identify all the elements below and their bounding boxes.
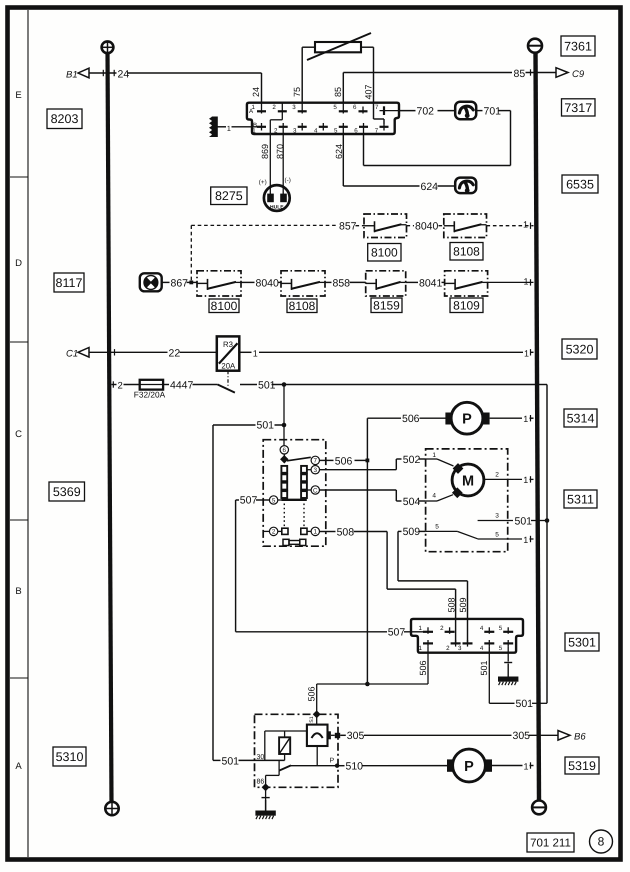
ground bus (right) [536,51,540,801]
timer diode to contact lead [316,746,318,766]
pin A2 [272,103,286,114]
svg-text:4: 4 [314,128,318,135]
component label 8159 [371,298,402,313]
pin A3 [292,103,306,114]
connector 5301 pin A5 [499,625,513,634]
dashed wire 857 branch corner [191,225,337,281]
component label 5369 [49,482,85,501]
relay pin 3 [311,466,319,474]
svg-text:7: 7 [375,104,379,111]
wire 506 : relay pin 7 to pump P and down [320,418,446,684]
svg-text:3: 3 [495,513,499,520]
relay stub col right to pin C [307,489,311,491]
svg-text:22: 22 [169,347,181,359]
timer ground terminal diamond [262,783,270,791]
bus tick at wire 2 [112,381,114,387]
svg-text:1: 1 [524,761,529,771]
svg-text:F32/20A: F32/20A [134,389,166,399]
svg-text:509: 509 [403,526,421,538]
svg-text:1: 1 [227,124,231,133]
relay terminal square right [301,528,307,534]
svg-text:6: 6 [353,104,357,111]
motor pin 4 lead [426,493,453,502]
svg-text:8041: 8041 [419,277,443,289]
motor terminal diamond upper [453,463,464,474]
svg-text:5319: 5319 [568,759,596,773]
connector 5301 pin B2 [446,640,460,652]
strip divider E/D [10,176,28,178]
bus tick R3 row [530,349,532,355]
svg-text:2: 2 [272,104,276,111]
relay pin 1 (508 out) [311,527,319,535]
svg-text:8: 8 [598,835,605,849]
wire 501 : connector 5301 pin B4 to parallel line [489,647,547,704]
pin B5 [334,123,348,135]
wire 508 : relay pin 1 to connector 5301 pin B2 [320,532,456,644]
svg-text:3: 3 [292,104,296,111]
svg-text:R3: R3 [223,340,233,349]
svg-text:6535: 6535 [566,177,594,191]
wire 504 : relay pin C to motor pin 4 [320,490,426,501]
relay terminal square left [282,528,288,534]
junction node 501 parallel [545,518,550,523]
relay dotted link right [303,504,305,527]
blower control relay 5369 box [263,440,326,547]
wire 502 : relay pin 3 to motor pin 1 [320,459,426,470]
connector block outline (heater control) [247,103,399,134]
chassis ground timer [255,800,275,819]
svg-text:C1: C1 [66,349,78,360]
svg-text:B: B [15,586,21,597]
svg-text:5: 5 [272,497,276,504]
svg-text:S1: S1 [309,716,315,722]
motor M symbol [452,464,484,496]
svg-text:7: 7 [375,128,379,135]
chassis ground lug left of connector [209,117,218,138]
svg-text:3: 3 [293,128,297,135]
wire 858 row2 [325,281,366,283]
ignition switch contact [218,385,235,393]
battery 8275 symbol [264,185,290,211]
svg-text:85: 85 [333,87,343,97]
wire 501 parallel drop right of bus [536,385,547,704]
svg-text:P: P [330,757,335,764]
svg-text:504: 504 [403,496,421,508]
motor pin 2 lead to ground bus [484,472,534,480]
wire 509 label and lead [398,530,426,532]
svg-text:4: 4 [480,625,484,632]
junction node P/510 [335,764,339,768]
svg-text:86: 86 [257,779,265,786]
wire 8041 row2 [406,281,445,283]
bus tick motor pin5 [530,536,532,542]
pump P symbol (5319) [447,749,492,782]
motor switch contact 5 [426,524,534,539]
pin A1 [252,103,266,114]
svg-text:506: 506 [402,413,420,425]
timer top terminal diamond [313,710,321,718]
component label 6535 [562,175,598,193]
wire 624 : pin B5 to clock icon 2 [343,134,455,186]
wire 870 : connector to battery minus [282,134,284,194]
svg-text:624: 624 [421,181,439,193]
svg-text:B1: B1 [66,70,78,81]
wire label 501 (branch) [256,419,275,432]
svg-text:5: 5 [334,128,338,135]
wire 507 : relay pin 5 to connector 5301 [236,500,423,632]
bus tick at 22 wire [114,349,116,355]
svg-text:8109: 8109 [453,298,480,312]
margin strip line [27,10,29,857]
wire 1 : R3 to ground bus [239,351,533,353]
svg-text:407: 407 [363,84,373,99]
svg-text:P: P [464,759,474,775]
svg-text:305: 305 [513,730,531,742]
svg-text:(+): (+) [259,179,267,186]
svg-text:C: C [15,429,22,440]
svg-text:HULE: HULE [270,204,284,210]
connector 5301 pin B1 [419,640,433,652]
svg-text:5301: 5301 [568,635,596,649]
svg-text:508: 508 [446,597,456,612]
timer internal lead top [316,714,318,724]
svg-text:B6: B6 [574,731,586,742]
blower motor unit 5311 box [426,449,508,552]
timer relay 5310 box [255,714,339,787]
bus tick pump row [530,415,532,421]
svg-text:M: M [462,474,474,490]
relay pin 5 (507 out) [269,496,277,504]
svg-text:24: 24 [251,87,261,97]
svg-text:5320: 5320 [566,342,594,356]
svg-text:858: 858 [333,277,351,289]
door switch 8100 (row1) [364,214,407,238]
relay pin 7 [311,456,319,464]
sheet number box 701 211 [527,833,574,852]
clock symbol 624 [455,178,476,194]
svg-text:3: 3 [458,645,462,652]
wire 509 : to connector 5301 pin B3 [398,531,468,643]
svg-text:8203: 8203 [51,112,79,126]
svg-text:1: 1 [252,104,256,111]
svg-text:501: 501 [222,755,240,767]
pin B3 [293,123,307,135]
wire 701 : icon to connector pin B6 (loop) [364,111,511,166]
wire 501 branch to relay coil pin 6 [283,385,285,446]
door switch 8108 (row1) [444,214,487,238]
junction node 501 [282,382,287,387]
svg-text:501: 501 [515,515,533,527]
strip divider D/C [10,341,28,343]
relay bottom resistor [283,539,306,545]
svg-text:2: 2 [274,128,278,135]
component label 8108 (row1) [450,243,483,261]
svg-text:6: 6 [354,128,358,135]
component label 8100 (row2) [209,299,239,313]
relay pin 2 stub [263,530,269,532]
timer terminal square 305 [330,731,341,739]
component label 5314 [564,409,597,427]
svg-text:4: 4 [432,493,436,500]
door switch 8108 (row2) [281,271,325,296]
svg-text:C: C [313,487,318,494]
wire 867 : lamp icon to switch chain [162,281,197,283]
svg-text:5: 5 [499,645,503,652]
svg-text:2: 2 [272,529,276,536]
pin B7 [375,123,389,135]
svg-text:1: 1 [432,452,436,459]
svg-text:E: E [15,90,21,101]
relay stub bar to pin 5 [278,499,282,501]
component label 8203 [47,109,82,129]
svg-text:3: 3 [314,467,318,474]
relay stub pin2-square [278,530,282,532]
relay resistor column right [301,466,307,498]
wire 506 : connector 5301 pin B1 down to junction [317,647,428,684]
timer coil [279,737,290,754]
svg-text:701 211: 701 211 [530,838,571,850]
relay pin 2 [269,527,277,535]
bus tick motor pin2 [530,476,532,482]
svg-text:1: 1 [523,535,528,545]
rheostat R (variable resistor) [307,33,371,60]
component label 7317 [562,99,596,116]
connector 5301 outline [411,619,523,653]
chassis ground 5301 [498,664,518,686]
wire 305 : timer to arrow B6 [340,734,558,736]
svg-text:510: 510 [346,761,364,773]
connector 5301 pin B4 [480,640,494,652]
relay column bottom bar [282,499,307,501]
timer pivot to ground lead [266,771,280,788]
timer electronic box (diode) [307,725,328,746]
svg-text:1: 1 [253,348,258,358]
svg-text:1: 1 [524,348,529,358]
connector 5301 pin B5 [499,640,513,652]
svg-text:8108: 8108 [289,299,316,313]
wire 22 : C1 to breaker R3 [89,351,217,353]
relay pin C [311,486,319,494]
svg-text:502: 502 [403,454,421,466]
door switch 8159 [366,271,406,296]
terminal circle-minus top right [528,39,542,53]
door switch 8109 [445,271,488,296]
component label 8108 (row2) [287,299,317,313]
svg-text:8100: 8100 [211,299,238,313]
svg-text:5: 5 [495,531,499,538]
svg-text:1: 1 [419,645,423,652]
wire 869 : connector to battery plus [269,134,271,194]
door switch 8100 (row2) [197,271,241,296]
wire 85 : connector pin A5 to arrow C9 [343,73,556,104]
junction node 501 at 425 [282,423,287,428]
svg-text:5: 5 [435,524,439,531]
svg-text:2: 2 [440,625,444,632]
svg-text:7361: 7361 [564,39,592,53]
svg-text:507: 507 [388,627,406,639]
svg-text:5369: 5369 [53,485,81,499]
motor pin 3 lead (501) [478,513,547,521]
svg-text:701: 701 [484,105,502,117]
junction node 506 [366,459,370,463]
pin B2 [274,123,288,135]
svg-text:C9: C9 [572,69,585,80]
svg-text:20A: 20A [221,361,236,370]
thermal breaker R3 20A [217,336,240,370]
svg-text:5310: 5310 [56,750,84,764]
component label 5320 [562,339,597,359]
svg-text:6: 6 [283,447,287,454]
svg-text:1: 1 [524,276,529,286]
svg-text:501: 501 [257,420,275,432]
motor terminal diamond lower [452,487,463,498]
relay pin 6 (top) [280,446,288,454]
svg-text:8040: 8040 [415,220,439,232]
svg-text:4447: 4447 [170,379,194,391]
wire 4447 : fuse to ignition switch [163,384,218,386]
relay stub square-pin1 [307,530,311,532]
terminal circle-plus top left [102,41,114,53]
sheet index circle 8 [590,830,613,853]
clock symbol 701/702 [455,102,476,120]
component label 8109 [450,298,483,313]
wire 702 : pin A7 to clock icon [399,110,455,112]
svg-text:2: 2 [446,645,450,652]
timer ground stub and tick [262,787,270,810]
motor pin 1 lead [426,452,454,466]
svg-text:506: 506 [418,660,428,675]
wire 407 : rheostat to connector pin B7 (internal) [361,47,384,123]
junction node 506 bottom [365,682,370,687]
svg-text:1: 1 [252,128,256,135]
terminal circle-minus bottom right [532,801,546,815]
wire 2 : supply bus to fuse F32 [112,384,140,386]
svg-text:501: 501 [258,379,276,391]
pin B1 [252,123,266,135]
positive supply bus (left) [108,51,112,803]
wire 8040 row2 [241,281,281,283]
svg-text:5311: 5311 [567,492,594,506]
arrow B1 (off-page left) [66,68,89,80]
bus tick row2 [530,279,532,285]
connector 5301 pin A2 [440,625,454,634]
svg-text:870: 870 [275,144,285,159]
svg-text:24: 24 [118,68,130,80]
bus tick at 85 wire [530,69,532,75]
svg-text:867: 867 [171,277,189,289]
svg-text:8159: 8159 [373,298,400,312]
svg-text:1: 1 [419,625,423,632]
component label 5311 [564,490,597,508]
svg-text:8108: 8108 [453,244,480,258]
internal link pin A2 to wire 869 [270,114,282,135]
svg-text:509: 509 [458,597,468,612]
relay stub col right to pin 3 [307,469,311,471]
svg-text:8100: 8100 [371,245,398,259]
timer switch arm [279,760,337,770]
junction node 857/867 [189,281,193,285]
svg-text:2: 2 [118,380,123,391]
component label 5310 [53,747,86,766]
terminal circle-plus bottom left [105,802,118,815]
svg-text:1: 1 [314,529,318,536]
pin A5 [333,103,347,114]
arrow C1 (off-page left) [66,348,89,360]
arrow C9 (off-page right) [556,68,585,80]
connector 5301 pin B3 [458,640,472,652]
svg-text:5: 5 [333,104,337,111]
dashed wire row1 to ground bus [487,225,534,227]
wire 1 : pump 5319 to ground bus [492,765,534,767]
component label 8100 (row1) [368,244,401,262]
svg-text:30: 30 [257,754,265,761]
mechanical link R3 to switch (dash-dot) [227,371,229,387]
svg-text:7: 7 [314,458,318,465]
svg-text:2: 2 [495,472,499,479]
wire 501 : to timer pin 30 [213,759,285,761]
svg-text:1: 1 [523,219,528,229]
connector 5301 pin A4 [480,625,494,634]
wire 510 : timer P contact to pump [337,765,447,767]
svg-text:506: 506 [306,686,316,701]
wire 501 branch to bottom relay [213,425,284,760]
component label 5319 [565,757,599,774]
svg-text:305: 305 [347,730,365,742]
fuse F32/20A [140,380,163,390]
connector 5301 pin B5 ground stub [504,647,512,663]
svg-text:1: 1 [523,475,528,485]
svg-text:501: 501 [479,660,489,675]
wire 1 : pump P to ground bus [490,417,534,419]
svg-text:857: 857 [339,221,357,233]
pin A6 [353,104,367,114]
svg-text:A: A [15,761,22,772]
timer wiring loop [265,731,307,760]
svg-text:8117: 8117 [56,276,83,290]
wire 506 : junction down to timer relay [316,684,318,714]
svg-text:8275: 8275 [215,189,243,203]
bus tick marks at 24 wire crossing [103,70,114,76]
pump P symbol (5314) [445,402,489,434]
svg-text:(-): (-) [285,177,291,184]
svg-text:P: P [462,412,472,428]
relay switch arm to pin 7 [287,457,311,461]
relay dotted link left [283,504,285,527]
svg-text:85: 85 [514,68,526,80]
connector 5301 pin A1 [419,625,433,634]
pin B4 [314,123,328,135]
bus tick pump 5319 [530,762,532,768]
svg-text:501: 501 [516,698,534,710]
pin A7 (wire 702 exit) [375,104,399,115]
component label 7361 [561,36,595,56]
bus tick row1 [530,223,532,229]
arrow B6 (off-page right) [558,731,586,743]
wire 75 : rheostat to connector pin A3 [302,47,315,103]
svg-text:4: 4 [480,645,484,652]
svg-text:869: 869 [260,144,270,159]
wire 1 : ground lug to pin B1 [218,126,258,128]
svg-text:5314: 5314 [567,411,595,425]
strip divider C/B [10,519,28,521]
dashed wire 857 to switch 8100 [356,225,365,227]
wire row2 to ground bus [488,281,534,283]
svg-text:624: 624 [334,144,344,159]
wire 24 : B1 arrow to connector pin A1 [89,73,262,103]
svg-text:75: 75 [292,87,302,97]
pin B6 [354,123,368,135]
component label 8275 [211,187,247,205]
